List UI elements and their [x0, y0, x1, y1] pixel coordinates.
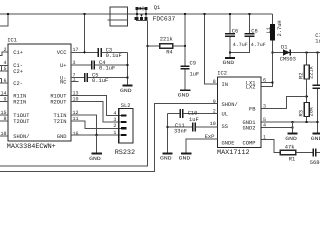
- svg-text:SHDN/: SHDN/: [222, 102, 238, 108]
- svg-text:UL: UL: [222, 112, 228, 118]
- svg-text:C6: C6: [232, 28, 238, 34]
- svg-text:VCC: VCC: [57, 50, 67, 56]
- svg-text:Q1: Q1: [154, 5, 160, 11]
- svg-text:6: 6: [263, 78, 266, 84]
- svg-text:IN: IN: [222, 82, 228, 88]
- svg-text:T2OUT: T2OUT: [13, 119, 30, 125]
- svg-text:8: 8: [213, 79, 216, 85]
- capacitor C5: [85, 73, 88, 82]
- wire rail drop to R4/C9 node: [184, 14, 186, 46]
- wire GND pin16 to SL2 pin1: [71, 134, 121, 136]
- wire T1IN down to gnd net: [71, 115, 97, 135]
- wire U- to C5: [71, 77, 84, 79]
- svg-text:20k: 20k: [308, 107, 314, 117]
- ground bypass: [122, 85, 132, 87]
- svg-text:NC: NC: [60, 80, 66, 86]
- svg-text:5680pF: 5680pF: [310, 160, 320, 166]
- svg-text:MAX17112: MAX17112: [217, 149, 250, 157]
- ground ExP: [181, 152, 191, 154]
- svg-text:T2IN: T2IN: [54, 119, 67, 125]
- svg-text:SHDN/: SHDN/: [13, 134, 29, 140]
- svg-text:GND: GND: [223, 60, 235, 66]
- svg-text:FDC637: FDC637: [153, 15, 176, 22]
- wire gnd drop: [96, 135, 98, 153]
- svg-text:221k: 221k: [308, 66, 314, 79]
- svg-text:C9: C9: [190, 61, 196, 67]
- svg-text:U+: U+: [60, 63, 66, 69]
- ground IC1: [91, 153, 101, 155]
- svg-text:C1+: C1+: [13, 50, 23, 56]
- connector SL2: [119, 108, 133, 143]
- svg-text:SL2: SL2: [121, 103, 131, 109]
- svg-text:0.1uF: 0.1uF: [92, 78, 108, 84]
- svg-text:0.1uF: 0.1uF: [99, 66, 115, 72]
- svg-text:GND: GND: [179, 156, 191, 162]
- svg-text:GND2: GND2: [243, 126, 256, 132]
- svg-text:L1: L1: [266, 27, 272, 33]
- wire U+ to C4: [71, 64, 91, 66]
- svg-text:3: 3: [113, 117, 116, 123]
- wire COMP to R1: [261, 140, 280, 153]
- wire IC1 left pin stubs: [0, 52, 8, 136]
- pin numbers SL2: [113, 110, 116, 135]
- svg-text:GND: GND: [285, 136, 297, 142]
- svg-text:3: 3: [263, 104, 266, 110]
- node rail-left branch: [7, 13, 9, 15]
- svg-text:MAX3384ECWN+: MAX3384ECWN+: [7, 143, 56, 151]
- svg-text:R1: R1: [289, 156, 295, 162]
- svg-text:R2OUT: R2OUT: [50, 100, 67, 106]
- svg-text:9: 9: [213, 99, 216, 105]
- resistor R4: [160, 44, 173, 49]
- svg-text:IC1: IC1: [7, 38, 17, 44]
- wire left branch to edge: [0, 14, 8, 26]
- svg-text:4.7uF: 4.7uF: [233, 42, 248, 48]
- capacitor C11: [168, 126, 193, 128]
- capacitor C4: [92, 61, 95, 70]
- wire bypass ground bus: [127, 52, 129, 85]
- svg-text:2.7uH: 2.7uH: [277, 20, 283, 36]
- svg-text:C2-: C2-: [13, 81, 23, 87]
- svg-text:GND: GND: [311, 136, 320, 142]
- wire R2OUT to SL2 pin3: [71, 102, 121, 123]
- resistor R3: [304, 103, 309, 117]
- capacitor C12 comp: [313, 149, 316, 157]
- IC1 MAX3384E: [8, 44, 71, 141]
- capacitor C7 output: [316, 51, 318, 53]
- wire C10/C11 left vertical: [167, 114, 169, 153]
- wire NC stub: [71, 81, 79, 83]
- wire GND1 bus: [261, 121, 318, 123]
- svg-text:1: 1: [263, 135, 266, 141]
- ground C10/C11: [162, 152, 172, 154]
- svg-text:R2: R2: [298, 73, 304, 79]
- svg-text:4: 4: [113, 110, 116, 116]
- svg-text:COMP: COMP: [243, 141, 256, 147]
- inductor L1: [272, 14, 274, 24]
- svg-text:C8: C8: [251, 28, 257, 34]
- svg-text:C2+: C2+: [13, 69, 23, 75]
- capacitor C10: [168, 113, 180, 115]
- wire VCC to C3: [71, 51, 98, 53]
- wire R1 to C12: [296, 152, 313, 154]
- svg-text:CMS03: CMS03: [280, 57, 296, 63]
- svg-text:16: 16: [73, 131, 79, 137]
- svg-text:GNDE: GNDE: [222, 141, 235, 147]
- wire GND2: [261, 127, 293, 129]
- svg-text:GND: GND: [178, 92, 190, 98]
- svg-text:2: 2: [113, 123, 116, 129]
- svg-text:R4: R4: [166, 49, 172, 55]
- svg-text:4: 4: [263, 123, 266, 129]
- svg-text:1uF: 1uF: [315, 39, 320, 45]
- svg-text:1uF: 1uF: [190, 72, 200, 78]
- ground C6/C8: [225, 57, 235, 59]
- svg-text:LX2: LX2: [246, 85, 256, 91]
- wire LX net: [261, 53, 273, 87]
- node FB junction: [306, 95, 308, 97]
- pin numbers IC1: [0, 47, 78, 137]
- svg-text:ExP: ExP: [205, 134, 215, 140]
- svg-text:RS232: RS232: [115, 149, 135, 157]
- capacitor C9: [184, 46, 186, 66]
- ferrite bead box on rail: [110, 7, 127, 26]
- pin numbers IC2: [210, 78, 266, 141]
- svg-text:D1: D1: [281, 44, 287, 50]
- svg-text:GND: GND: [160, 156, 172, 162]
- diode D1: [273, 52, 284, 54]
- svg-text:1: 1: [113, 130, 116, 136]
- svg-text:33nF: 33nF: [174, 129, 187, 135]
- capacitor C8: [249, 14, 251, 34]
- svg-text:10: 10: [210, 121, 216, 127]
- svg-text:0.1uF: 0.1uF: [106, 53, 122, 59]
- IC2 MAX17112: [218, 77, 262, 148]
- wire ExP to ground: [186, 139, 217, 153]
- resistor R1: [280, 150, 295, 155]
- svg-text:GND: GND: [57, 134, 67, 140]
- svg-text:SS: SS: [222, 124, 228, 130]
- svg-text:R3: R3: [298, 110, 304, 116]
- svg-text:4.7uF: 4.7uF: [251, 42, 266, 48]
- wire top supply rail: [0, 13, 273, 15]
- svg-text:C10: C10: [188, 111, 198, 117]
- capacitor C6: [229, 14, 231, 34]
- resistor R2: [306, 51, 308, 53]
- wire ferrite second line: [108, 19, 128, 21]
- wire FB: [261, 97, 307, 109]
- ground C9: [180, 89, 190, 91]
- node Q1/R4 junction: [146, 45, 148, 47]
- ground GND1/GND2: [287, 133, 297, 135]
- svg-text:FB: FB: [249, 107, 256, 113]
- svg-text:47k: 47k: [285, 145, 295, 151]
- wire T2IN to SL2 pin2: [71, 121, 121, 128]
- svg-text:221k: 221k: [160, 37, 173, 43]
- wire R1OUT to SL2 pin4: [71, 96, 121, 116]
- svg-text:1uF: 1uF: [189, 117, 199, 123]
- wire R4 left lead: [148, 45, 160, 47]
- svg-text:GND: GND: [89, 156, 101, 162]
- transistor Q1: [135, 7, 148, 21]
- wire R4 right lead: [173, 45, 185, 47]
- wire rail drop to IN pin: [205, 14, 218, 84]
- svg-text:GND: GND: [120, 88, 132, 94]
- svg-text:IC2: IC2: [217, 71, 227, 77]
- wire SHDN long: [0, 103, 218, 171]
- ground C7: [312, 133, 320, 135]
- capacitor C3: [98, 48, 101, 57]
- wire Q1 source down to bottom-left: [0, 21, 148, 166]
- svg-text:R2IN: R2IN: [13, 100, 26, 106]
